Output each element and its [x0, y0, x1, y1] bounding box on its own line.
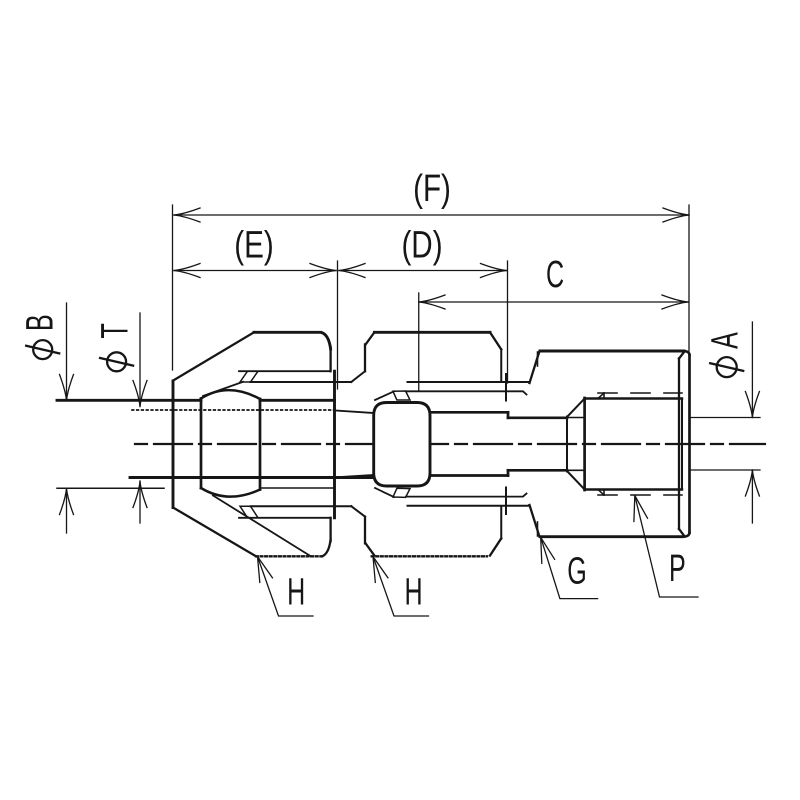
- middle sleeve cone top: [351, 371, 365, 382]
- dimension phi-A arrows: [690, 322, 760, 523]
- bore line top in cone: [567, 417, 585, 419]
- seat cone left face: [566, 417, 568, 472]
- middle nut left face: [364, 344, 366, 371]
- left nut bottom chamfer: [173, 508, 256, 557]
- leader H1: [258, 557, 314, 617]
- collar step vline bottom: [505, 488, 507, 515]
- middle nut left chamfer bottom: [366, 543, 375, 555]
- svg-text:H: H: [404, 570, 422, 612]
- slot bottom left nut: [240, 506, 258, 518]
- dimension (F) line: [174, 208, 689, 222]
- neck bottom line 2: [508, 469, 567, 472]
- thread hidden line top (dotted): [132, 409, 336, 411]
- phi symbol of phi-B: [26, 340, 59, 359]
- middle nut left face bottom: [364, 517, 366, 544]
- bore line bottom in cone: [567, 469, 585, 471]
- neck step bottom: [507, 470, 510, 475]
- svg-text:T: T: [93, 323, 135, 338]
- extension line left (F/E): [172, 205, 174, 370]
- left nut top flat: [254, 332, 331, 349]
- middle nut bottom flat (dotted): [372, 555, 487, 557]
- thread start tick top: [603, 393, 605, 399]
- svg-text:(E): (E): [234, 224, 273, 266]
- thread minor top: [585, 397, 682, 400]
- ferrule dome top: [201, 390, 260, 399]
- left nut right face upper: [329, 347, 331, 371]
- middle nut right chamfer: [490, 332, 501, 349]
- seat cone bottom diagonal: [567, 471, 585, 490]
- dimension C line: [419, 295, 688, 309]
- end face chamfer bottom: [679, 529, 685, 536]
- nut bore bottom line: [260, 487, 335, 489]
- end face corner top: [684, 351, 690, 355]
- neck bottom line: [430, 474, 508, 477]
- middle nut right face bottom: [500, 506, 502, 538]
- end face outer vline: [688, 355, 691, 533]
- bore taper bottom: [336, 475, 374, 477]
- thread solid line bottom: [130, 476, 374, 479]
- dimension phi-T arrows: [133, 313, 147, 523]
- ball (middle ferrule): [374, 403, 430, 487]
- middle nut top flat: [374, 331, 490, 334]
- ball cone bottom: [375, 488, 394, 497]
- svg-text:(D): (D): [401, 224, 442, 266]
- end face inner vline: [678, 359, 680, 530]
- svg-text:(F): (F): [413, 168, 451, 210]
- middle nut hex edge top: [406, 391, 527, 394]
- thread runout top: [598, 393, 604, 399]
- extension line C left: [418, 293, 420, 391]
- svg-text:G: G: [567, 549, 587, 591]
- thread major bottom (dashed): [598, 494, 682, 496]
- svg-text:P: P: [669, 547, 686, 589]
- middle nut right face: [500, 349, 502, 382]
- ball slot top: [393, 391, 410, 400]
- collar top line: [408, 381, 530, 383]
- collar step vline: [505, 374, 507, 401]
- dimension (D) line: [339, 264, 507, 278]
- right hex bottom chamfer: [530, 505, 540, 537]
- centerline: [135, 443, 765, 445]
- thread major top (dashed): [598, 392, 682, 394]
- thread start tick bottom: [603, 490, 605, 496]
- extension line F/C right: [688, 205, 690, 351]
- ferrule right edge: [259, 399, 262, 490]
- collar bottom line: [408, 505, 530, 507]
- right hex chamfer arc line bottom: [537, 522, 539, 536]
- tube stub top line: [57, 399, 201, 402]
- nut cone top: [203, 382, 243, 396]
- extension line E/D boundary: [337, 261, 339, 389]
- middle nut left chamfer: [366, 332, 375, 344]
- left nut face: [172, 381, 175, 508]
- right hex top chamfer: [530, 351, 540, 383]
- right hex top flat: [540, 350, 684, 353]
- right hex bottom flat: [540, 535, 682, 538]
- phi symbol of phi-T: [100, 352, 133, 371]
- dimension (E) line: [174, 264, 336, 278]
- thread minor bottom: [585, 488, 682, 491]
- leader P: [634, 496, 698, 598]
- ferrule skirt bottom: [213, 496, 310, 556]
- ferrule left edge: [200, 399, 203, 489]
- neck top line 2: [508, 416, 567, 419]
- nut bore top line: [260, 399, 335, 402]
- end face corner bottom: [684, 533, 690, 537]
- thread end vline: [681, 399, 683, 490]
- leader G: [541, 537, 598, 598]
- thread base vline: [583, 398, 586, 490]
- end face chamfer top: [679, 352, 685, 359]
- neck top line: [430, 411, 508, 414]
- neck step top: [507, 412, 510, 418]
- phi symbol of phi-A: [710, 357, 743, 377]
- middle sleeve cone bottom: [351, 506, 365, 516]
- dimension phi-B arrows: [60, 303, 74, 533]
- left nut bottom flat (dotted): [256, 555, 324, 557]
- middle nut hex edge bottom: [406, 494, 527, 497]
- bore taper top: [336, 411, 374, 414]
- svg-text:A: A: [703, 332, 745, 349]
- left nut inner face: [333, 371, 336, 518]
- thread runout bottom: [598, 490, 604, 496]
- svg-text:H: H: [287, 570, 305, 612]
- left nut hex edge top: [239, 370, 331, 372]
- ball cone top: [375, 391, 394, 400]
- extension line D right: [507, 261, 509, 383]
- slot top left nut: [240, 371, 258, 382]
- left nut hex edge bottom: [239, 517, 331, 519]
- seat cone top diagonal: [567, 399, 585, 418]
- svg-text:C: C: [546, 253, 564, 295]
- ferrule dome bottom: [201, 488, 260, 497]
- sleeve line top: [251, 381, 352, 383]
- sleeve line bottom: [251, 505, 352, 507]
- ball slot bottom: [393, 488, 410, 497]
- middle nut right chamfer bottom: [490, 538, 501, 555]
- tube stub bottom extension line: [57, 487, 164, 489]
- leader H2: [373, 557, 429, 617]
- right hex chamfer arc line top: [537, 352, 539, 366]
- left nut right face lower: [329, 518, 331, 541]
- svg-text:B: B: [18, 314, 60, 331]
- left nut top chamfer: [173, 332, 254, 380]
- left nut bottom corner: [322, 540, 331, 557]
